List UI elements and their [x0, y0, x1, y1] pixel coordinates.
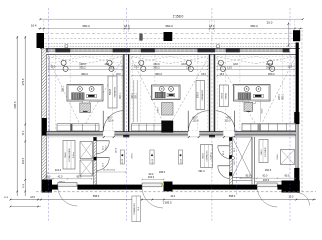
svg-text:298.0: 298.0	[279, 93, 281, 99]
corridor doors right (to shaft)	[218, 145, 231, 147]
room 2 label box	[196, 81, 205, 110]
bottom dimension line	[10, 199, 316, 201]
svg-text:+0.00: +0.00	[152, 158, 154, 164]
level marker 3	[178, 150, 182, 164]
room 1 left edge dim line	[48, 58, 50, 132]
corridor dim line mid	[96, 171, 126, 173]
room 3 bench equipment	[238, 93, 246, 99]
column bottom-left	[42, 180, 53, 193]
svg-text:18.0: 18.0	[219, 73, 224, 76]
svg-text:158.0: 158.0	[158, 106, 160, 112]
room 3 label box	[219, 85, 228, 107]
room 1 counter dark cell	[70, 124, 72, 131]
right wall window	[296, 124, 299, 168]
rack C bottom line	[255, 181, 297, 183]
room 2 window symbol	[139, 60, 144, 65]
window edge projections	[54, 55, 56, 130]
svg-text:215.0: 215.0	[148, 176, 155, 179]
right wall block lower	[294, 168, 299, 184]
dashed line below building	[36, 191, 316, 193]
svg-text:335.2: 335.2	[153, 66, 160, 70]
svg-text:212.0: 212.0	[55, 169, 62, 172]
svg-text:42.0: 42.0	[192, 118, 197, 120]
door gaps in corridor wall	[103, 131, 114, 136]
room 3 dim line vertical	[260, 100, 262, 122]
svg-text:360.2: 360.2	[155, 72, 162, 76]
svg-text:265.0: 265.0	[132, 153, 134, 159]
svg-text:13.0: 13.0	[289, 195, 294, 198]
svg-text:335.2: 335.2	[79, 66, 86, 70]
level marker 1	[120, 150, 124, 164]
room 2 equipment square hatched	[162, 103, 174, 116]
facade wall top edge	[40, 47, 300, 49]
svg-text:18.0: 18.0	[116, 73, 121, 76]
svg-text:210.0: 210.0	[225, 121, 231, 123]
dimension line top overall 1158.0	[40, 18, 303, 20]
svg-text:160.0: 160.0	[266, 62, 273, 66]
room 1 bench equipment	[72, 93, 80, 99]
room 2 bench equipment	[155, 92, 162, 98]
svg-text:230.0: 230.0	[277, 154, 279, 160]
svg-text:LOCALE RACK: LOCALE RACK	[68, 148, 71, 162]
room 2 window swing dashed X	[132, 57, 170, 64]
room 3 equipment square hatched	[244, 102, 253, 111]
svg-text:506 B: 506 B	[110, 89, 112, 95]
room 2 bottom counter	[132, 124, 162, 131]
bottom inner dim right	[240, 177, 296, 179]
room 3 window swing dashed X	[217, 57, 256, 64]
svg-text:343.0: 343.0	[132, 92, 134, 98]
corridor dim line left	[47, 172, 94, 174]
svg-text:42.0: 42.0	[226, 118, 231, 120]
right wall block upper	[294, 112, 299, 124]
vent symbol 3	[217, 45, 220, 48]
svg-text:13.5: 13.5	[186, 67, 191, 70]
door leaf bottom-center	[142, 183, 162, 187]
svg-text:210.0: 210.0	[108, 121, 114, 123]
svg-text:85.0: 85.0	[246, 175, 251, 178]
dimension line left inner	[24, 36, 26, 196]
module wall	[207, 54, 209, 131]
svg-text:358.1: 358.1	[62, 85, 65, 92]
room 3 bottom counter	[242, 123, 296, 130]
svg-text:120.0: 120.0	[234, 160, 236, 166]
small arc bottom far right	[297, 193, 310, 206]
column bottom-center	[164, 182, 173, 192]
svg-text:291.0: 291.0	[198, 170, 205, 173]
svg-text:363.1: 363.1	[120, 92, 122, 98]
room 1 lab bench	[67, 85, 103, 102]
grid axis A	[48, 8, 50, 222]
svg-text:42.0: 42.0	[58, 176, 63, 179]
svg-text:13.5: 13.5	[134, 66, 139, 68]
svg-text:13.5: 13.5	[227, 67, 232, 70]
bottom dim line 2 short	[11, 206, 41, 208]
room 2 door	[187, 111, 189, 132]
room 1 bottom counter	[57, 124, 99, 131]
right outer dashed line	[301, 30, 303, 192]
vent symbol 1	[65, 45, 68, 48]
corridoio label box below	[132, 196, 141, 222]
svg-text:265.0: 265.0	[116, 147, 118, 153]
svg-text:375.5: 375.5	[21, 78, 25, 85]
svg-text:FERMENT.: FERMENT.	[202, 89, 204, 100]
svg-text:213.5: 213.5	[22, 157, 25, 164]
shaft bottom line	[232, 180, 252, 182]
corridor wall lower line	[47, 136, 297, 138]
svg-text:506 A: 506 A	[197, 92, 200, 98]
svg-text:CORRIDOIO: CORRIDOIO	[207, 150, 209, 161]
bottom inner dim left	[44, 178, 92, 180]
svg-text:18.0: 18.0	[201, 73, 206, 76]
svg-text:LOC.RACK: LOC.RACK	[264, 146, 267, 156]
svg-text:160.0: 160.0	[153, 62, 160, 66]
svg-text:360.2: 360.2	[250, 24, 258, 28]
rack C crossed square	[281, 150, 295, 165]
svg-text:43.5: 43.5	[30, 196, 35, 199]
room 3 door	[234, 111, 236, 132]
svg-text:210.0: 210.0	[193, 121, 199, 123]
room 1 window swing dashed X	[48, 57, 85, 64]
svg-text:360.2: 360.2	[165, 24, 173, 28]
svg-text:16.4: 16.4	[31, 24, 37, 28]
svg-text:160.0: 160.0	[79, 62, 86, 66]
left wall	[41, 48, 43, 184]
door arc bottom-right	[257, 187, 277, 207]
door arc bottom-center	[142, 187, 163, 208]
room 3 lab bench	[234, 85, 271, 102]
grid axis B	[125, 8, 127, 222]
room 2 full-height dashed V	[131, 57, 167, 129]
svg-text:1'183.5: 1'183.5	[162, 200, 172, 204]
svg-text:FERMENT.: FERMENT.	[115, 86, 117, 97]
rack room E wall	[93, 137, 95, 185]
svg-text:260.5: 260.5	[261, 108, 263, 114]
svg-text:360.2: 360.2	[82, 24, 90, 28]
canopy dashed outline	[40, 33, 296, 35]
room 3 full-height dashed V	[216, 57, 258, 129]
room 3 counter dark cell	[258, 124, 262, 131]
left wall solid block	[42, 118, 47, 136]
level marker 2	[150, 150, 154, 164]
svg-text:+0.00: +0.00	[122, 158, 124, 164]
room 1 inner dashed outline	[49, 57, 122, 131]
svg-text:506 D: 506 D	[203, 153, 205, 159]
shaft knob circle	[232, 157, 235, 160]
svg-text:260.5: 260.5	[265, 169, 272, 172]
shaft wall blocks	[229, 137, 232, 141]
corridor door lower left	[96, 157, 109, 159]
dimension line top segments	[38, 28, 303, 30]
svg-text:506 A: 506 A	[220, 93, 223, 99]
corridor wall fill	[47, 132, 297, 135]
svg-text:13.5: 13.5	[109, 67, 114, 70]
column bottom-right	[282, 181, 300, 193]
room 1 full-height dashed V	[48, 57, 83, 129]
svg-text:558.0: 558.0	[229, 194, 236, 198]
door hinge marker yellow	[162, 183, 164, 185]
svg-text:8.50m²: 8.50m²	[72, 152, 75, 158]
room 3 dim lines	[217, 65, 295, 67]
room 3 bench tab	[249, 101, 256, 103]
room 3 window symbol	[268, 60, 273, 65]
room 1 window symbol	[61, 60, 66, 65]
grid axis C	[211, 8, 213, 222]
svg-text:CORRIDOIO: CORRIDOIO	[134, 203, 136, 215]
svg-text:608.5: 608.5	[13, 101, 17, 109]
room 1 label box	[108, 76, 117, 108]
rack E crossed square 1	[80, 142, 93, 159]
svg-text:43.8: 43.8	[233, 63, 238, 66]
door arc bottom-left	[58, 187, 78, 207]
facade piers	[44, 48, 48, 52]
svg-text:1'158.0: 1'158.0	[173, 15, 184, 19]
room 1 bench tab	[83, 101, 90, 103]
room 1 window symbol	[107, 60, 112, 65]
room 2 dim lines	[132, 65, 209, 67]
rack E label box	[63, 141, 75, 170]
svg-text:85.0: 85.0	[77, 176, 82, 179]
svg-text:82.0: 82.0	[263, 175, 268, 178]
grid axis shaft	[236, 130, 238, 196]
svg-text:358.1: 358.1	[282, 93, 284, 99]
svg-text:335.2: 335.2	[266, 66, 273, 70]
svg-text:18.0: 18.0	[124, 24, 130, 28]
dimension line left outer	[16, 36, 18, 196]
svg-text:358.1: 358.1	[136, 92, 138, 98]
svg-text:25.0: 25.0	[267, 20, 273, 24]
room 1 equipment square hatched	[80, 103, 91, 113]
column top-center	[164, 32, 173, 41]
room 2 lab bench	[152, 85, 181, 100]
bottom wall segments	[52, 185, 58, 190]
svg-text:+0.00: +0.00	[180, 158, 182, 164]
room 2 dim lines vertical left	[133, 80, 135, 122]
svg-text:215.0: 215.0	[263, 179, 270, 182]
right wall solid	[296, 43, 299, 125]
svg-text:506 C: 506 C	[261, 149, 263, 155]
svg-text:30.0: 30.0	[23, 130, 25, 135]
svg-text:210.0: 210.0	[105, 145, 107, 151]
vent symbol 2	[140, 34, 143, 41]
svg-text:FERM.: FERM.	[226, 92, 228, 99]
facade wall bottom edge	[44, 53, 296, 55]
rack C label box	[259, 140, 268, 163]
svg-text:13.5 97.0 13.5: 13.5 97.0 13.5	[103, 170, 115, 172]
corridor D label box	[201, 145, 213, 168]
door leaf bottom-right	[257, 183, 277, 187]
shaft crossed	[232, 137, 252, 178]
room 2 window symbol	[186, 60, 191, 65]
shaft left wall	[229, 137, 231, 185]
rack E wall blocks	[93, 137, 96, 141]
svg-text:42.0: 42.0	[170, 195, 175, 198]
room 3 window symbol	[218, 60, 223, 65]
module wall	[122, 54, 124, 131]
wall face projection dashes top	[43, 21, 45, 33]
module wall foot	[209, 132, 215, 138]
svg-text:198.0: 198.0	[159, 171, 166, 174]
svg-text:360.2: 360.2	[268, 72, 275, 76]
grid axis D	[289, 8, 291, 222]
room 1 dim lines	[48, 65, 123, 67]
corridor door upper left	[96, 140, 109, 142]
shaft right wall	[251, 137, 253, 185]
room 3 inner dashed outline	[218, 57, 294, 131]
svg-text:360.2: 360.2	[81, 72, 88, 76]
room 2 equipment block solid	[162, 121, 174, 133]
svg-text:13.5: 13.5	[51, 66, 56, 68]
svg-text:506 E: 506 E	[65, 152, 67, 158]
svg-text:85.5: 85.5	[285, 175, 290, 178]
svg-text:558.0: 558.0	[93, 194, 100, 198]
rack E crossed square 2	[80, 160, 93, 176]
room 2 inner dashed outline	[132, 57, 207, 131]
module wall foot	[123, 132, 129, 138]
column top-right	[293, 30, 300, 41]
svg-text:42.0: 42.0	[107, 118, 112, 120]
dimension line top right vertical	[287, 22, 289, 47]
column top-left	[37, 33, 45, 48]
door leaf bottom-left	[58, 183, 77, 187]
facade windows	[48, 49, 56, 52]
room 1 door	[102, 111, 104, 132]
